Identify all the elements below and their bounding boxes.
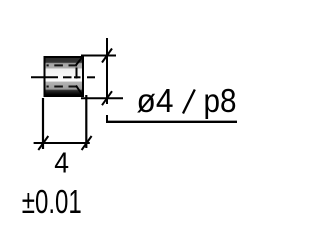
part outline (45, 57, 84, 96)
dimension 4: left extension line (42, 98, 44, 149)
svg-text:±0.01: ±0.01 (22, 184, 82, 221)
dimension dia4/p8: leader line (106, 121, 237, 123)
chamfer diagonal top-right (76, 58, 82, 66)
svg-text:ø4: ø4 (137, 83, 174, 120)
dimension dia4/p8: top extension line (81, 55, 116, 57)
dimension dia4/p8: vertical dimension line lower segment (106, 115, 108, 123)
dimension 4: right tick (82, 136, 92, 150)
chamfer edge vertical line (76, 68, 78, 79)
dimension dia4/p8: top tick (102, 49, 112, 63)
dimension 4: dimension line (34, 142, 90, 144)
dimension dia4/p8: vertical dimension line upper segment (106, 38, 108, 104)
centerline (31, 76, 95, 78)
svg-text:4: 4 (54, 147, 69, 179)
part body (shaded cylinder side view) (46, 58, 83, 95)
dimension dia4/p8: slash (183, 90, 195, 114)
hidden line (bore) bottom (47, 86, 82, 88)
dimension dia4/p8: bottom extension line (81, 97, 123, 99)
hidden line (bore) top (47, 64, 82, 66)
dimension 4: left tick (38, 136, 48, 150)
chamfer diagonal bottom-right (76, 86, 82, 95)
dimension 4: right extension line (85, 95, 87, 148)
svg-text:p8: p8 (204, 83, 237, 120)
dimension dia4/p8: bottom tick (102, 91, 112, 105)
